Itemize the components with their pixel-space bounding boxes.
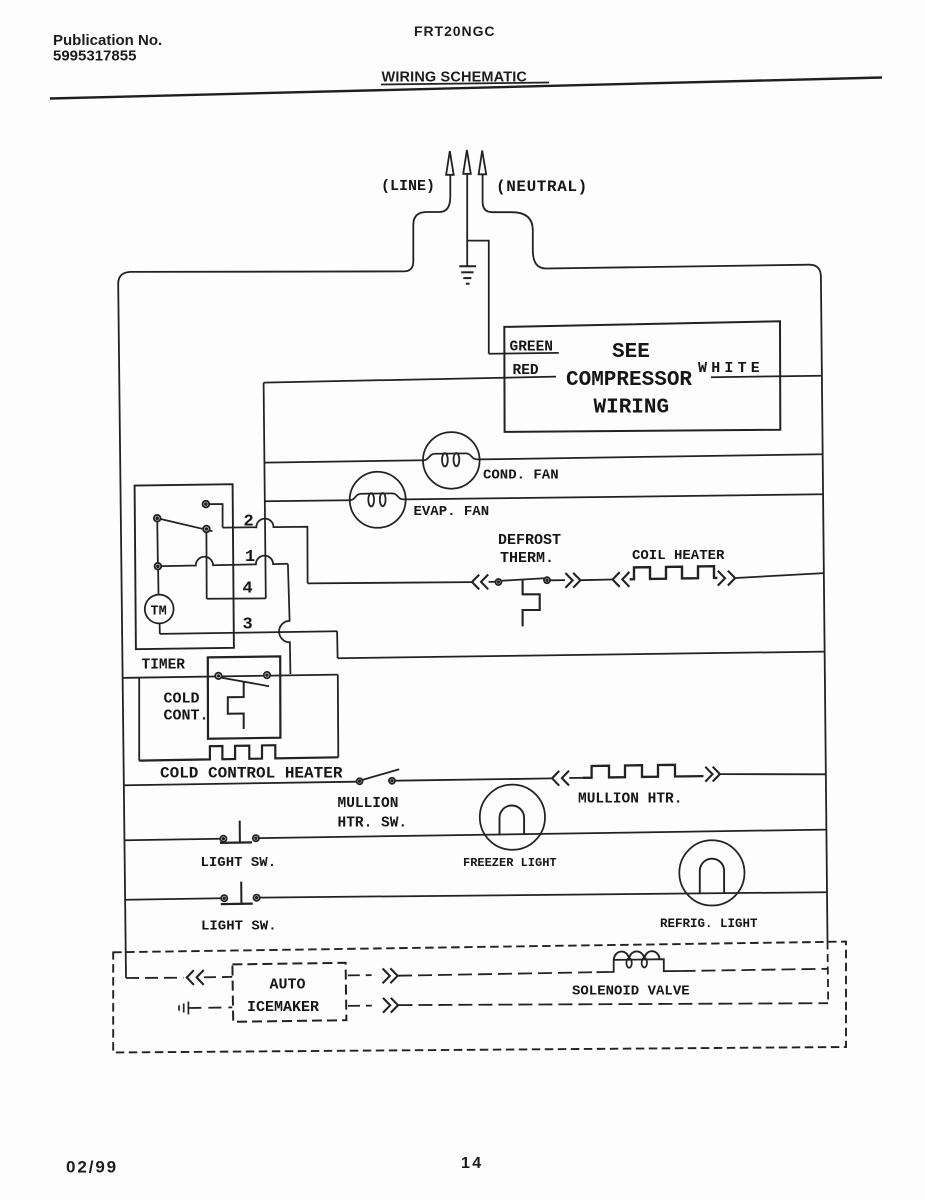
svg-text:DEFROST: DEFROST bbox=[498, 532, 561, 549]
svg-text:THERM.: THERM. bbox=[500, 550, 554, 567]
svg-text:(NEUTRAL): (NEUTRAL) bbox=[496, 178, 588, 196]
svg-text:WHITE: WHITE bbox=[698, 360, 764, 377]
svg-text:TIMER: TIMER bbox=[142, 658, 186, 674]
svg-text:TM: TM bbox=[151, 605, 167, 620]
svg-text:FRT20NGC: FRT20NGC bbox=[414, 23, 496, 39]
svg-text:WIRING: WIRING bbox=[594, 397, 670, 420]
svg-text:LIGHT SW.: LIGHT SW. bbox=[201, 855, 277, 871]
svg-text:4: 4 bbox=[243, 580, 253, 599]
svg-text:LIGHT SW.: LIGHT SW. bbox=[201, 919, 277, 935]
svg-text:SEE: SEE bbox=[612, 341, 650, 364]
svg-text:SOLENOID VALVE: SOLENOID VALVE bbox=[572, 984, 690, 1000]
svg-text:ICEMAKER: ICEMAKER bbox=[247, 999, 319, 1016]
svg-text:COLD: COLD bbox=[164, 691, 200, 708]
svg-text:EVAP. FAN: EVAP. FAN bbox=[414, 504, 490, 520]
svg-text:MULLION HTR.: MULLION HTR. bbox=[578, 792, 682, 808]
svg-text:3: 3 bbox=[243, 616, 253, 635]
svg-text:2: 2 bbox=[244, 513, 254, 532]
svg-text:COND. FAN: COND. FAN bbox=[483, 468, 559, 484]
svg-text:FREEZER LIGHT: FREEZER LIGHT bbox=[463, 856, 557, 870]
svg-text:02/99: 02/99 bbox=[66, 1158, 118, 1177]
svg-text:COLD CONTROL HEATER: COLD CONTROL HEATER bbox=[160, 765, 343, 783]
svg-text:CONT.: CONT. bbox=[164, 708, 209, 725]
svg-text:COMPRESSOR: COMPRESSOR bbox=[566, 369, 692, 392]
svg-text:HTR. SW.: HTR. SW. bbox=[338, 816, 408, 832]
svg-text:Publication No.: Publication No. bbox=[53, 32, 162, 49]
svg-text:1: 1 bbox=[245, 548, 255, 567]
svg-text:(LINE): (LINE) bbox=[381, 178, 435, 195]
svg-text:MULLION: MULLION bbox=[338, 796, 399, 812]
svg-text:COIL HEATER: COIL HEATER bbox=[632, 548, 725, 564]
svg-text:REFRIG. LIGHT: REFRIG. LIGHT bbox=[660, 917, 758, 931]
svg-text:AUTO: AUTO bbox=[270, 977, 306, 994]
svg-text:5995317855: 5995317855 bbox=[53, 48, 136, 65]
svg-text:14: 14 bbox=[461, 1155, 484, 1172]
